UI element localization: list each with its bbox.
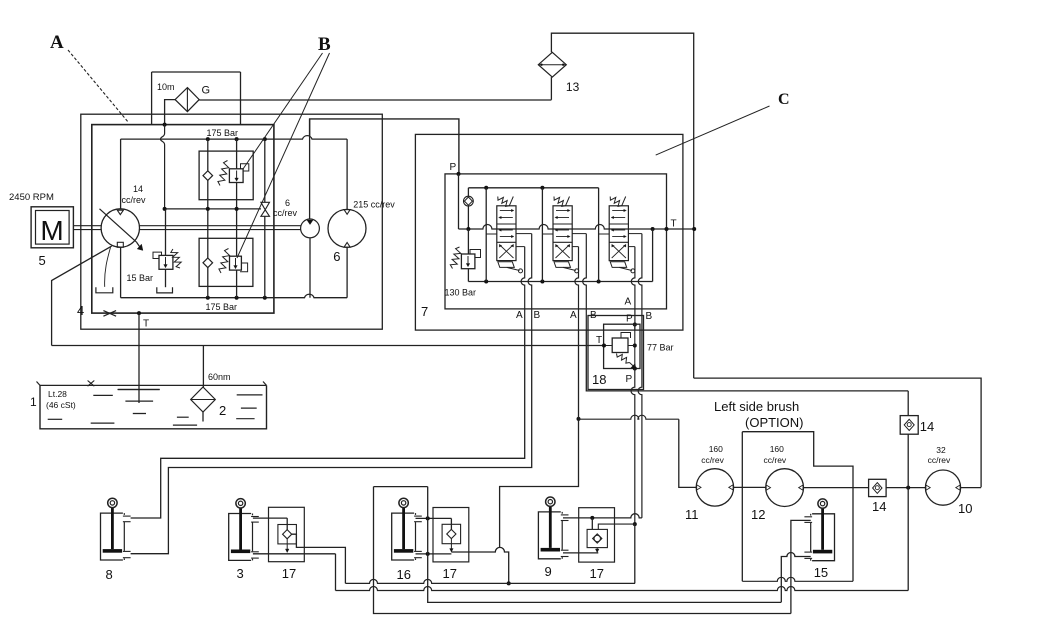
svg-text:1: 1	[30, 395, 37, 409]
svg-text:8: 8	[106, 567, 113, 582]
svg-text:18: 18	[592, 372, 606, 387]
svg-text:T: T	[596, 335, 602, 346]
svg-text:A: A	[570, 310, 577, 321]
svg-text:6: 6	[333, 249, 340, 264]
svg-text:B: B	[318, 34, 331, 55]
svg-text:A: A	[625, 297, 632, 308]
svg-text:B: B	[646, 311, 653, 322]
svg-text:175 Bar: 175 Bar	[207, 128, 239, 138]
svg-text:17: 17	[590, 566, 604, 581]
svg-text:C: C	[778, 91, 790, 108]
svg-text:3: 3	[237, 566, 244, 581]
svg-text:P: P	[626, 374, 633, 385]
svg-text:160: 160	[709, 444, 723, 454]
svg-text:11: 11	[685, 507, 699, 522]
svg-text:A: A	[50, 32, 64, 53]
svg-text:17: 17	[282, 566, 296, 581]
svg-text:13: 13	[566, 80, 580, 94]
svg-text:5: 5	[39, 253, 46, 268]
svg-text:cc/rev: cc/rev	[273, 208, 298, 218]
svg-text:10m: 10m	[157, 82, 175, 92]
svg-text:2: 2	[219, 403, 226, 418]
svg-text:cc/rev: cc/rev	[764, 455, 787, 465]
svg-text:215 cc/rev: 215 cc/rev	[353, 200, 395, 210]
svg-text:cc/rev: cc/rev	[122, 195, 147, 205]
svg-text:P: P	[626, 314, 633, 325]
svg-text:32: 32	[936, 445, 946, 455]
svg-text:6: 6	[285, 198, 290, 208]
svg-text:130 Bar: 130 Bar	[445, 288, 477, 298]
svg-text:Lt.28: Lt.28	[48, 389, 67, 399]
svg-text:(46 cSt): (46 cSt)	[46, 400, 76, 410]
svg-text:B: B	[534, 310, 541, 321]
svg-text:M: M	[40, 215, 63, 246]
svg-text:Left side brush: Left side brush	[714, 399, 799, 414]
svg-text:2450 RPM: 2450 RPM	[9, 192, 54, 203]
svg-text:7: 7	[421, 304, 428, 319]
svg-text:cc/rev: cc/rev	[701, 455, 724, 465]
svg-text:160: 160	[770, 444, 784, 454]
svg-text:G: G	[202, 85, 211, 97]
svg-text:175 Bar: 175 Bar	[206, 302, 238, 312]
svg-text:14: 14	[872, 499, 886, 514]
svg-text:60nm: 60nm	[208, 372, 231, 382]
svg-text:T: T	[671, 219, 677, 230]
svg-text:A: A	[516, 310, 523, 321]
svg-text:10: 10	[958, 501, 972, 516]
svg-text:14: 14	[133, 184, 143, 194]
svg-text:16: 16	[397, 567, 411, 582]
svg-text:P: P	[450, 162, 457, 173]
svg-text:4: 4	[77, 303, 84, 318]
svg-text:cc/rev: cc/rev	[928, 455, 951, 465]
svg-text:9: 9	[545, 564, 552, 579]
svg-text:17: 17	[443, 566, 457, 581]
svg-text:T: T	[143, 319, 149, 330]
svg-text:77 Bar: 77 Bar	[647, 343, 674, 353]
svg-text:(OPTION): (OPTION)	[745, 415, 804, 430]
svg-text:14: 14	[920, 419, 934, 434]
svg-text:12: 12	[751, 507, 765, 522]
svg-text:15: 15	[814, 565, 828, 580]
svg-text:15 Bar: 15 Bar	[127, 273, 154, 283]
